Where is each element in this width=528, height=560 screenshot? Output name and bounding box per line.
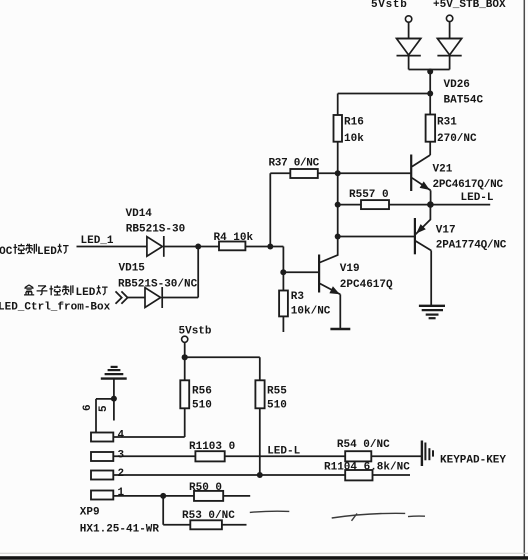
svg-text:R50 0: R50 0 <box>189 482 222 494</box>
svg-text:SOC: SOC <box>0 246 13 258</box>
svg-text:4: 4 <box>118 430 125 442</box>
svg-text:RB521S-30: RB521S-30 <box>126 224 185 236</box>
svg-text:3: 3 <box>118 449 125 461</box>
svg-text:LED-L: LED-L <box>267 446 300 458</box>
svg-text:R54 0/NC: R54 0/NC <box>337 439 390 451</box>
svg-text:R55: R55 <box>267 385 287 397</box>
svg-text:R37 0/NC: R37 0/NC <box>269 158 320 170</box>
svg-text:+5V_STB_BOX: +5V_STB_BOX <box>433 0 506 11</box>
svg-text:R56: R56 <box>192 385 212 397</box>
svg-text:V17: V17 <box>436 225 456 237</box>
svg-text:V21: V21 <box>433 164 453 176</box>
svg-text:R31: R31 <box>437 117 457 129</box>
svg-text:R16: R16 <box>344 117 364 129</box>
svg-text:R53 0/NC: R53 0/NC <box>182 510 235 522</box>
svg-text:R3: R3 <box>291 291 305 303</box>
svg-text:VD26: VD26 <box>444 79 470 91</box>
svg-text:RB521S-30/NC: RB521S-30/NC <box>118 279 198 291</box>
svg-text:1: 1 <box>118 487 125 499</box>
svg-text:VD14: VD14 <box>126 208 153 220</box>
svg-text:R1103 0: R1103 0 <box>189 441 235 453</box>
svg-text:2PA1774Q/NC: 2PA1774Q/NC <box>436 240 507 252</box>
svg-text:270/NC: 270/NC <box>437 133 477 145</box>
svg-text:V19: V19 <box>340 263 360 275</box>
svg-text:5Vstb: 5Vstb <box>371 0 408 11</box>
svg-text:HX1.25-41-WR: HX1.25-41-WR <box>80 524 160 536</box>
svg-text:LED_Ctrl_from-Box: LED_Ctrl_from-Box <box>0 302 111 314</box>
svg-text:5: 5 <box>98 405 110 412</box>
svg-text:6: 6 <box>82 404 94 411</box>
svg-text:5Vstb: 5Vstb <box>179 326 212 338</box>
svg-text:R1104 6.8k/NC: R1104 6.8k/NC <box>324 462 410 474</box>
svg-text:LED_1: LED_1 <box>81 235 114 247</box>
svg-text:R557 0: R557 0 <box>349 189 389 201</box>
svg-text:10k: 10k <box>344 133 364 145</box>
svg-text:510: 510 <box>192 400 212 412</box>
svg-text:VD15: VD15 <box>119 263 146 275</box>
svg-text:LED: LED <box>37 246 57 258</box>
svg-text:2PC4617Q/NC: 2PC4617Q/NC <box>433 179 504 191</box>
svg-text:KEYPAD-KEY: KEYPAD-KEY <box>440 455 506 467</box>
svg-text:10k/NC: 10k/NC <box>291 306 331 318</box>
svg-text:2: 2 <box>118 468 125 480</box>
svg-text:LED-L: LED-L <box>461 192 494 204</box>
svg-text:R4 10k: R4 10k <box>214 232 254 244</box>
svg-text:BAT54C: BAT54C <box>444 95 484 107</box>
svg-text:LED: LED <box>76 287 96 299</box>
svg-text:XP9: XP9 <box>80 507 100 519</box>
svg-text:2PC4617Q: 2PC4617Q <box>340 279 393 291</box>
svg-text:510: 510 <box>267 400 287 412</box>
